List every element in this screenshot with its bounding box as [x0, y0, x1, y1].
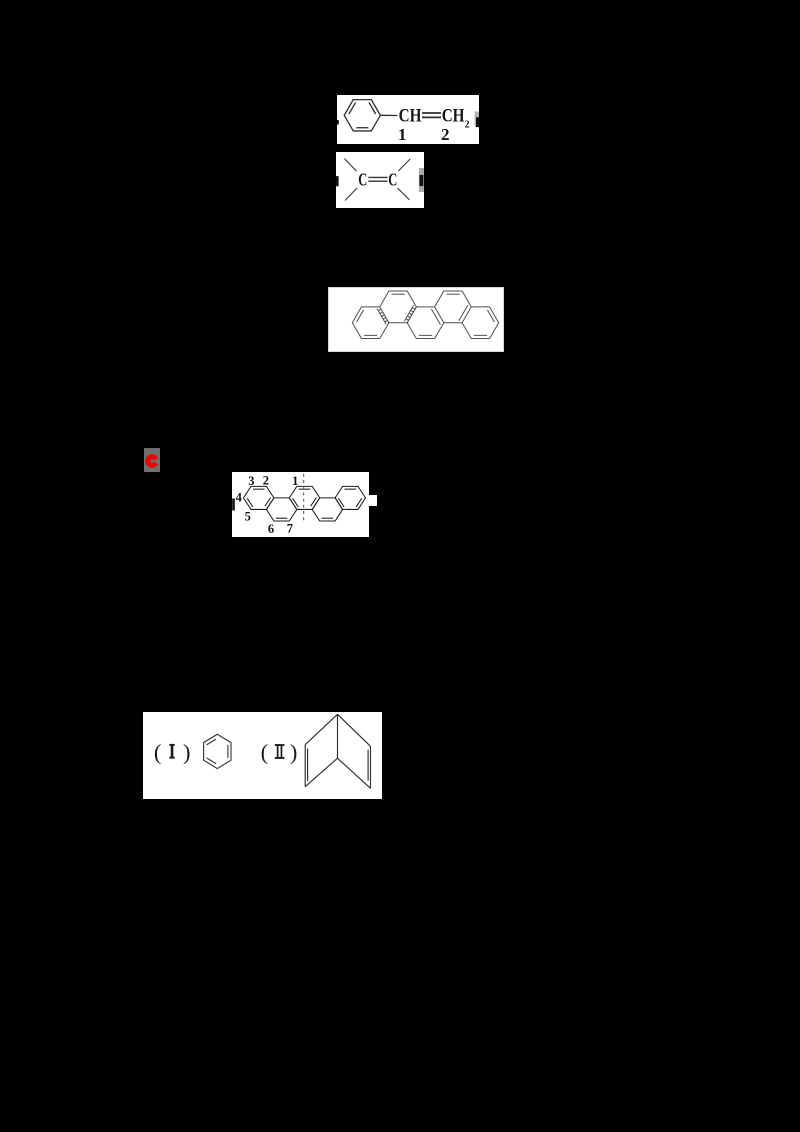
fusion bond A'-B' double	[266, 498, 274, 510]
svg-text:1: 1	[292, 474, 298, 488]
substituent bond upper-right	[398, 159, 410, 171]
svg-text:4: 4	[236, 491, 243, 505]
substituent bond upper-left	[345, 159, 357, 172]
benzene double bond bottom	[356, 127, 368, 129]
Dewar benzene left vertical bond	[304, 745, 306, 787]
svg-text:): )	[290, 739, 298, 764]
benzene I double bond right	[227, 745, 229, 758]
ring A double bond upper-left	[356, 309, 363, 321]
Dewar benzene right vertical bond	[370, 746, 372, 788]
benzene double bond upper-right	[369, 102, 376, 114]
Dewar benzene apex to right-top bond	[338, 714, 371, 746]
image box 4: numbered picene with symmetry axis	[232, 472, 369, 537]
ring D double bond top	[446, 293, 459, 295]
Dewar benzene left double bond inner line	[307, 749, 309, 782]
ring D' double bond bottom	[322, 517, 334, 519]
Dewar benzene bottom-left bond	[305, 758, 337, 787]
benzene ring of styrene	[344, 100, 380, 131]
red C glyph	[148, 457, 156, 465]
svg-text:C: C	[388, 170, 397, 190]
ring E double bond upper-right	[487, 309, 494, 321]
fusion bond D'-E' double	[335, 498, 343, 510]
Dewar benzene right double bond inner line	[367, 750, 369, 781]
ring B' outline	[266, 498, 296, 521]
svg-text:(: (	[261, 739, 269, 764]
ring B double bond top	[391, 293, 404, 295]
ring E' double bond top	[345, 488, 357, 490]
image box 1: styrene structure	[337, 95, 479, 144]
svg-text:7: 7	[287, 522, 293, 536]
ring B outline	[379, 291, 416, 323]
benzene double bond upper-left	[349, 102, 356, 114]
svg-text:): )	[183, 739, 191, 764]
white notch right of box 4	[369, 495, 377, 506]
ring A' double bond top	[253, 488, 265, 490]
fusion bond C-D double	[431, 309, 440, 325]
ring D outline	[434, 291, 471, 323]
clipped character fragment at left edge of box 4	[232, 499, 235, 511]
bond ring to CH	[380, 114, 397, 116]
ring A double bond bottom	[364, 334, 377, 336]
fusion bond A-B hatched	[379, 306, 388, 322]
clipped character fragment at left edge of box 1	[337, 120, 339, 125]
Dewar benzene central bridge bond	[337, 714, 339, 758]
ring A' outline	[244, 486, 274, 509]
svg-text:2: 2	[263, 473, 269, 487]
svg-text:2: 2	[465, 120, 470, 131]
svg-text:3: 3	[248, 474, 254, 488]
Dewar benzene apex to left-top bond	[305, 714, 337, 744]
ring C' double bond top	[299, 488, 311, 490]
svg-text:(: (	[154, 739, 162, 764]
ring A' double bond lower-left	[247, 498, 253, 507]
svg-text:6: 6	[268, 522, 274, 536]
clipped character fragment at right edge of box 1	[475, 112, 479, 128]
substituent bond lower-right	[398, 188, 410, 200]
clipped character fragment at left edge of box 2	[336, 176, 339, 186]
benzene I double bond lower-left	[207, 758, 216, 764]
Dewar benzene bottom-right bond	[338, 758, 371, 788]
svg-text:2: 2	[441, 125, 450, 144]
image box 5: (I) benzene and (II) Dewar benzene	[143, 712, 382, 799]
ring B' double bond bottom	[276, 517, 288, 519]
fusion bond B'-C' double	[289, 498, 297, 510]
ring E double bond bottom	[473, 334, 486, 336]
ring C outline	[407, 306, 444, 338]
ring D' outline	[312, 498, 342, 521]
svg-text:CH: CH	[399, 106, 422, 126]
symmetry axis dashed line	[303, 474, 305, 521]
substituent bond lower-left	[345, 188, 357, 201]
svg-text:C: C	[358, 170, 367, 190]
image box 3: picene structure (large)	[328, 287, 504, 352]
ring E' double bond lower-right	[356, 498, 362, 507]
fusion bond D-E double	[458, 305, 467, 321]
ring E' outline	[335, 486, 365, 509]
C=C double bond lines	[422, 112, 441, 114]
ring C double bond bottom	[418, 334, 431, 336]
svg-text:5: 5	[245, 510, 251, 524]
C=C double bond lines	[368, 176, 387, 178]
image box 2: tetra-substituted C=C structure	[336, 152, 424, 208]
ring E outline	[462, 306, 499, 338]
svg-text:CH: CH	[442, 106, 465, 126]
benzene I double bond upper-left	[207, 739, 216, 745]
fusion bond C'-D' double	[312, 498, 320, 510]
svg-text:1: 1	[398, 125, 407, 144]
Roman numeral II glyph	[275, 744, 285, 746]
red marker box	[144, 448, 160, 472]
clipped character fragment at right edge of box 2	[419, 168, 424, 192]
ring A outline	[352, 306, 389, 338]
ring C' outline	[289, 486, 319, 509]
Roman numeral I glyph	[169, 744, 174, 746]
fusion bond B-C hatched	[407, 306, 416, 322]
benzene ring I outline	[204, 734, 231, 768]
